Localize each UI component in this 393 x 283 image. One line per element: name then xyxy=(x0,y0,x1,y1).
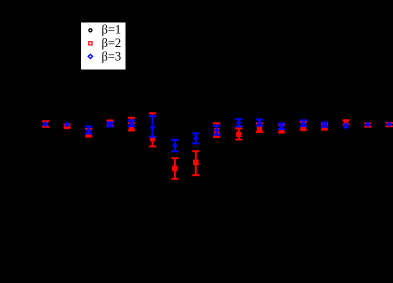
blue beta=3 point 3 error bar xyxy=(85,127,92,134)
blue beta=3 point 5 diamond marker xyxy=(129,121,135,126)
blue beta=3 point 3 diamond marker xyxy=(86,128,92,133)
legend marker beta=1 black open circle xyxy=(89,29,92,32)
blue beta=3 point 12 error bar xyxy=(278,124,285,130)
blue beta=3 point 16 diamond marker xyxy=(365,122,371,127)
red beta=2 point 13 square marker xyxy=(301,126,306,131)
blue beta=3 point 1 diamond marker xyxy=(42,122,48,127)
red beta=2 point 13 error bar xyxy=(300,122,307,129)
red beta=2 point 12 square marker xyxy=(279,128,284,133)
blue beta=3 point 7 diamond marker xyxy=(172,143,178,148)
blue beta=3 point 2 diamond marker xyxy=(64,122,70,127)
red beta=2 point 2 square marker xyxy=(64,124,69,129)
blue beta=3 point 8 diamond marker xyxy=(193,136,199,141)
red beta=2 point 14 square marker xyxy=(322,125,327,130)
blue beta=3 point 5 error bar xyxy=(128,120,135,126)
blue beta=3 point 15 error bar xyxy=(344,124,349,128)
red beta=2 point 3 error bar xyxy=(85,129,92,136)
blue beta=3 point 7 error bar xyxy=(171,140,178,152)
blue beta=3 point 9 diamond marker xyxy=(214,128,220,133)
blue beta=3 point 4 error bar xyxy=(106,122,113,126)
legend box xyxy=(81,22,127,70)
red beta=2 point 1 error bar xyxy=(42,121,49,127)
blue beta=3 point 10 diamond marker xyxy=(236,120,242,125)
red beta=2 point 10 error bar xyxy=(235,129,242,140)
red beta=2 point 16 error bar xyxy=(364,123,371,126)
blue beta=3 point 6 error bar xyxy=(149,116,156,137)
blue beta=3 point 14 error bar xyxy=(321,123,328,127)
svg-text:β=2: β=2 xyxy=(102,36,122,50)
blue beta=3 point 17 diamond marker xyxy=(386,122,392,127)
red beta=2 point 16 square marker xyxy=(366,123,371,128)
svg-text:β=3: β=3 xyxy=(102,50,122,64)
legend marker beta=3 blue open diamond xyxy=(88,54,92,58)
blue beta=3 point 4 diamond marker xyxy=(107,122,113,127)
blue beta=3 point 17 error bar xyxy=(388,122,390,126)
red beta=2 point 14 error bar xyxy=(321,124,328,129)
blue beta=3 point 11 diamond marker xyxy=(257,120,263,125)
blue beta=3 point 16 error bar xyxy=(367,122,369,127)
red beta=2 point 9 square marker xyxy=(214,128,219,133)
red beta=2 point 2 error bar xyxy=(64,124,71,127)
blue beta=3 point 6 diamond marker xyxy=(150,125,156,130)
svg-text:β=1: β=1 xyxy=(102,23,122,37)
red beta=2 point 9 error bar xyxy=(213,123,220,137)
blue beta=3 point 13 error bar xyxy=(300,120,307,126)
blue beta=3 point 9 error bar xyxy=(213,126,220,135)
red beta=2 point 11 error bar xyxy=(256,123,263,132)
blue beta=3 point 11 error bar xyxy=(256,119,263,125)
blue beta=3 point 13 diamond marker xyxy=(300,121,306,126)
blue beta=3 point 15 diamond marker xyxy=(343,122,349,127)
blue beta=3 point 1 error bar xyxy=(45,122,47,127)
blue beta=3 point 10 error bar xyxy=(235,119,242,126)
red beta=2 point 17 square marker xyxy=(387,122,391,126)
red beta=2 point 15 square marker xyxy=(344,119,349,124)
red beta=2 point 12 error bar xyxy=(278,125,285,133)
red beta=2 point 7 square marker xyxy=(172,166,178,172)
red beta=2 point 4 square marker xyxy=(107,120,112,125)
red beta=2 point 8 error bar xyxy=(192,151,199,175)
red beta=2 point 5 error bar xyxy=(128,118,135,131)
blue beta=3 point 8 error bar xyxy=(192,133,199,143)
legend marker beta=2 red open square xyxy=(89,42,92,45)
red beta=2 point 10 square marker xyxy=(236,132,241,137)
red beta=2 point 8 square marker xyxy=(193,160,199,166)
blue beta=3 point 2 error bar xyxy=(66,122,68,127)
red beta=2 point 7 error bar xyxy=(171,158,178,179)
red beta=2 point 15 error bar xyxy=(342,120,349,124)
red beta=2 point 5 square marker xyxy=(129,126,134,131)
red beta=2 point 6 square marker xyxy=(150,136,155,141)
red beta=2 point 17 error bar xyxy=(386,123,393,126)
red beta=2 point 6 error bar xyxy=(149,113,156,146)
red beta=2 point 4 error bar xyxy=(106,120,113,125)
blue beta=3 point 14 diamond marker xyxy=(322,122,328,127)
red beta=2 point 3 square marker xyxy=(86,132,91,137)
red beta=2 point 11 square marker xyxy=(257,126,262,131)
blue beta=3 point 12 diamond marker xyxy=(279,123,285,128)
red beta=2 point 1 square marker xyxy=(44,122,48,126)
